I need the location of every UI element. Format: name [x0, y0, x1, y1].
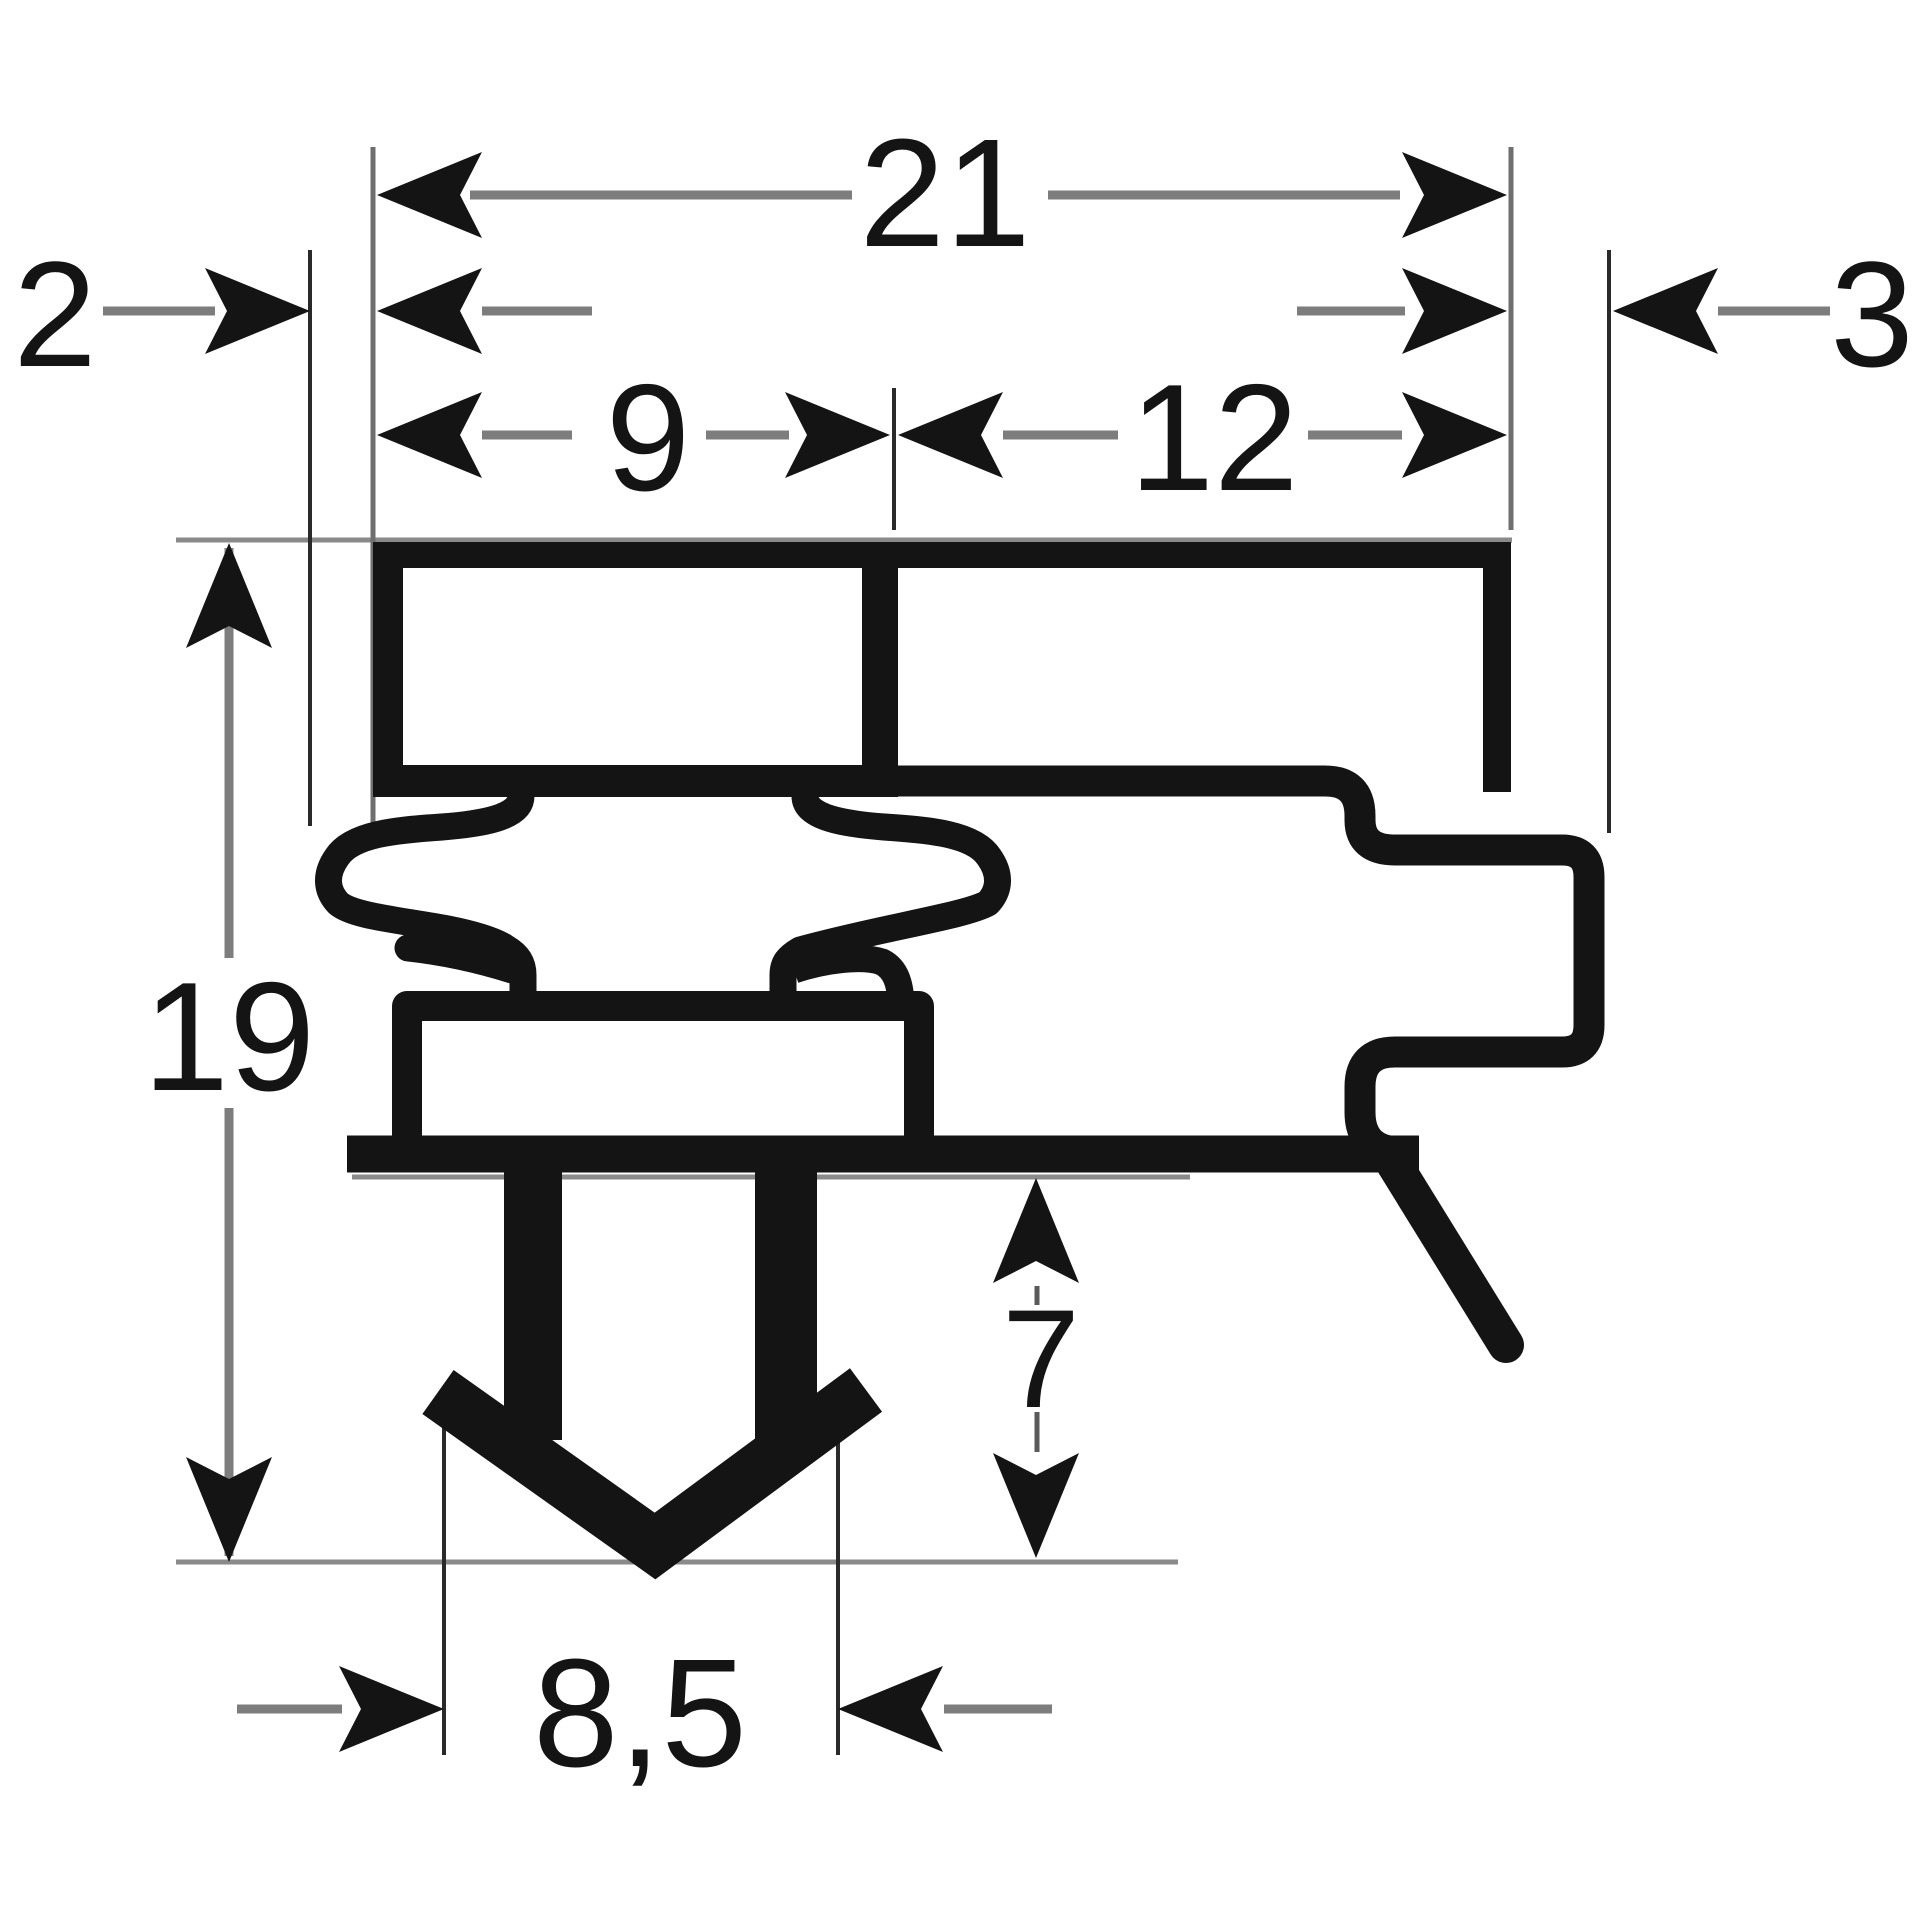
svg-text:7: 7 [1002, 1280, 1080, 1437]
dimension 9 [377, 353, 890, 523]
dimension 8,5 [237, 1627, 1052, 1799]
profile: hinge flap [1388, 1154, 1506, 1345]
extension line 8,5 left [442, 1396, 446, 1755]
profile: dart chevron [438, 1390, 866, 1546]
profile: dart right stem [755, 1160, 817, 1440]
svg-text:3: 3 [1830, 230, 1913, 398]
extension line bottom horizontal [176, 1560, 1178, 1565]
profile: bellows left S [328, 778, 523, 998]
extension line 8,5 right [836, 1432, 840, 1755]
svg-text:19: 19 [143, 950, 315, 1123]
extension line x1609 [1607, 250, 1611, 833]
profile: dart left stem [504, 1160, 562, 1440]
dimension 2 [13, 230, 592, 398]
svg-text:21: 21 [859, 107, 1030, 279]
extension line x373 [371, 147, 376, 830]
dimension 7 [993, 1178, 1080, 1558]
svg-text:9: 9 [606, 353, 691, 523]
profile: clamp right wall [1483, 542, 1511, 792]
profile: magnet box [407, 1006, 919, 1154]
extension line x894 [892, 388, 896, 530]
extension line plate bottom right [352, 1175, 1190, 1180]
profile: bellows right S [783, 778, 998, 998]
profile: base plate [347, 1136, 1419, 1173]
svg-text:12: 12 [1129, 353, 1298, 523]
svg-text:8,5: 8,5 [533, 1627, 747, 1799]
extension line x1511 [1509, 147, 1514, 530]
extension line top horizontal [176, 538, 1512, 543]
profile: right chamber bottom wall and door step [880, 781, 1589, 1152]
profile: left chamber bottom wall [373, 765, 898, 797]
profile: clamp left wall [373, 542, 403, 790]
dimension 12 [898, 353, 1507, 523]
profile: chamber divider [862, 555, 898, 781]
dimension 19 [143, 543, 315, 1562]
svg-text:2: 2 [13, 230, 96, 398]
profile: bellows right return lip [794, 959, 901, 1002]
dimension 21 [377, 107, 1507, 279]
extension line x310 [308, 250, 312, 826]
dimension 3 [1297, 230, 1914, 398]
profile: clamp top wall [373, 542, 1498, 568]
profile: bellows left return lip [408, 948, 512, 970]
